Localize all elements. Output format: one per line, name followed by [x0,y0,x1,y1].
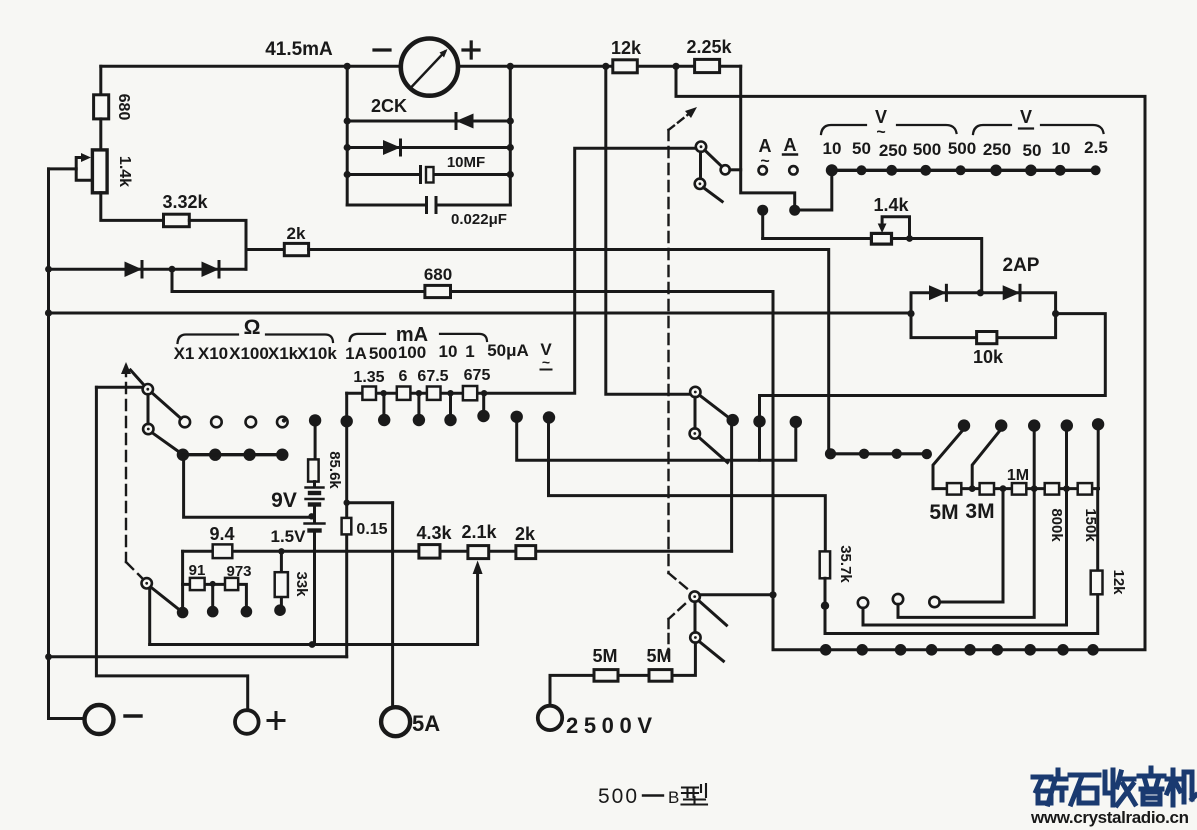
resistor 33k [275,572,288,597]
wire: wafer3 pivot link [694,602,697,633]
wire: 5M left lead diagonal [933,431,963,489]
svg-text:10MF: 10MF [447,154,485,171]
svg-text:5M: 5M [592,646,617,666]
wiper of 1.4k right pot [882,217,909,239]
junction: bridge left node [907,310,914,317]
rotary shaft dashed line (left) [126,366,143,579]
wire: omega contact bus [183,453,282,456]
svg-text:Ω: Ω [244,316,261,339]
wire: 2500V branch [550,643,695,706]
wire: HV divider chain [933,487,1099,490]
wiper arm b (free) [703,188,722,202]
svg-text:www.crystalradio.cn: www.crystalradio.cn [1030,808,1189,827]
svg-text:12k: 12k [611,38,642,58]
selector contact dots row2 [309,414,321,426]
resistor 0.15 [342,518,352,535]
svg-text:500: 500 [948,139,976,158]
svg-text:2.5: 2.5 [1084,138,1108,157]
svg-text:85.6k: 85.6k [326,451,343,489]
wafer2 wiper arm b (free) [699,437,728,462]
wire: wafer3 pivot a to right riser [700,593,773,596]
resistor 2.1k [468,546,489,559]
resistor 3M [980,483,994,495]
wire: 85.6k top lead [314,420,317,459]
svg-text:~: ~ [542,354,550,370]
svg-text:35.7k: 35.7k [837,545,854,583]
wire: diode row [49,268,247,271]
wire: 680 to 1.4k pot [99,119,102,150]
dashed top diagonal with arrow [669,113,691,130]
svg-text:X1k: X1k [268,344,299,363]
wire: bus y453 [831,452,927,455]
wire: contact to 2.25k drop [730,168,741,171]
resistor 5M b [649,670,672,682]
wire: battery resistor row y551 [183,550,732,553]
terminal plus [235,710,259,734]
svg-text:1.4k: 1.4k [116,156,133,187]
wire: 35.7k bottom to 12k bottom [825,578,1098,633]
wire: meter block left vertical [346,66,349,205]
wire: down to diode row [245,250,248,270]
wire: 0.15 column [345,421,348,657]
bracket omega group [178,335,334,344]
wire: wiper to left bus [49,167,77,170]
bottom bus dots [820,644,832,656]
resistor 3.32k [164,214,190,227]
junction: on right riser [769,591,776,598]
junction: 91-973 mid [210,581,216,587]
resistor 2.25k [695,59,720,72]
wire: line B [49,655,347,658]
node dot below A~ [757,205,768,216]
capacitor 10MF (electrolytic) [419,167,422,183]
svg-text:A: A [784,135,797,155]
resistor 35.7k [820,551,830,578]
junction: line B left [45,653,52,660]
omega wiper arm a [152,393,181,419]
svg-text:41.5mA: 41.5mA [265,39,333,60]
resistor 2k (top) [284,243,308,255]
node dot below A- [789,205,800,216]
battery selector dots [177,607,189,619]
junction: 2k line to bus453 [825,448,836,459]
svg-text:500: 500 [598,785,639,808]
dashed shaft (lower) [669,573,688,659]
resistor 33k leads [280,551,283,605]
svg-text:5M: 5M [646,646,671,666]
svg-text:10: 10 [823,139,842,158]
junction: left bus / long line [45,309,52,316]
svg-text:100: 100 [398,343,426,362]
potentiometer 1.4k (right) [871,233,891,244]
resistor 12k (right vertical) [1091,571,1103,595]
wafer2 pivot contact a [690,387,700,397]
bus453 dots [859,449,869,459]
wire: meter block right vertical [509,66,512,205]
junction: below 35.7k [821,602,829,610]
svg-text:2AP: 2AP [1003,255,1040,276]
wire: A~ node down to 1.4k pot line [761,210,764,238]
V bus contact dots [826,164,838,176]
svg-text:10k: 10k [973,347,1004,367]
adjust contact circle 2 [893,594,903,604]
rotary shaft dashed line (upper) [667,130,669,573]
svg-text:V: V [1020,107,1032,127]
diode D1 [125,262,143,278]
wire: 5A column [391,503,394,707]
wire: mA tap chain [347,392,484,395]
wire: pivot link [699,152,702,179]
wiper arm to arrow [131,370,144,385]
wiper arm a [705,150,722,166]
omega wafer pivot b [143,424,153,434]
omega open contacts row [180,417,191,428]
svg-text:680: 680 [424,265,452,284]
wiper arm to battery row [151,587,179,610]
wire: 3M-1M node down to contact circle [940,489,1003,602]
meter needle [411,52,445,88]
svg-text:1.5V: 1.5V [271,527,307,546]
lower-left pivot contact [142,578,152,588]
wire: wafer2 pivot link [694,397,697,428]
svg-text:675: 675 [464,367,491,384]
bridge diode D4 [1003,285,1020,300]
wire: row left end down [181,551,184,607]
junction: bridge right node [1052,310,1059,317]
wire: row right end up to contact [730,426,733,551]
wire: 680 line [172,290,773,293]
resistor 12k (top) [613,60,638,73]
resistor 85.6k [308,459,319,481]
capacitor 0.022uF [427,198,437,213]
wire: omega bus down to battery node [184,455,312,518]
svg-text:~: ~ [876,124,885,141]
omega contact dots row [177,449,189,461]
label plus at meter [463,42,479,58]
contact dot col 733 [727,414,739,426]
wire: 3.32k to 2k line [189,220,284,249]
bracket V~ group [821,125,957,134]
wire: chain left end down to contact [345,393,348,415]
svg-text:10: 10 [439,342,458,361]
svg-text:2500V: 2500V [566,713,652,738]
arrow to 2.1k [473,561,483,575]
svg-text:2.25k: 2.25k [686,37,732,57]
jack A~ circle [759,166,767,174]
svg-text:0.022μF: 0.022μF [451,211,507,228]
resistor 91 [190,578,205,590]
junction: 0.15 top tap [344,500,350,506]
wafer3 pivot contact b [690,632,700,642]
contact dot col 760 [753,415,765,427]
svg-text:0.15: 0.15 [356,521,387,538]
wire: V selector bus [832,169,1096,172]
resistor 10k on bridge [977,332,997,344]
adjust contact circle 3 [929,597,939,607]
junction: 2.25k left node [672,63,679,70]
rectifier bridge 2AP outline [911,293,1056,338]
caption glyph xing [682,784,708,805]
diode (pointing right) [383,140,401,155]
junction: pot wiper tie [906,235,913,242]
chain junction dots and stems [380,390,386,396]
resistor 973 [225,578,238,590]
svg-text:1A: 1A [345,344,367,363]
svg-text:~: ~ [760,153,769,170]
junction: 12k left node [602,63,609,70]
wire: long node line y313 [49,312,912,315]
junction: 33k top [278,548,284,554]
terminal 5A [381,707,410,736]
junction: diode row tap [169,266,176,273]
wire: outer loop (top edge, right edge, bottom bus, left riser) [676,66,1145,650]
wafer3 wiper arm a (free) [699,601,727,626]
wire: diode 2CK row [347,120,510,123]
resistor 1M [1012,483,1026,495]
resistor 1.35 [362,387,376,400]
svg-text:1M: 1M [1007,467,1029,484]
svg-text:X1: X1 [174,344,195,363]
wire: tap to 5A column [347,501,393,504]
resistor 4.3k [419,545,440,559]
resistor 5M a [594,670,618,682]
wire: line A with wiper riser to 2.1k [150,574,478,645]
resistor 67.5 [427,387,441,400]
wafer2 wiper arm a [700,395,728,417]
svg-text:2k: 2k [515,524,536,544]
svg-text:1.4k: 1.4k [873,195,909,215]
battery 1.5V [313,516,316,522]
svg-text:500: 500 [913,140,941,159]
wiper of 1.4k pot [76,158,92,181]
adjust contact circle 1 [858,598,868,608]
wire: 1M-800k node down to contact circle [898,489,1034,618]
dashed-line arrow (left shaft) [121,362,131,374]
svg-text:50: 50 [852,139,871,158]
resistor 6 [397,387,411,400]
wire: y497 line from contact 549 to 35.7k [549,423,826,551]
wire: 1M riser [1033,431,1036,489]
svg-text:3M: 3M [965,500,994,523]
svg-text:X10k: X10k [297,344,337,363]
wire: 2.25k right down, steps to V bus [741,66,832,210]
svg-text:X100: X100 [229,344,269,363]
wire: diode row tap down to 680 line [171,269,174,291]
wire: top rail riser from R 680 [99,66,102,95]
wire: 12k node down and to wafer2 pivot [606,66,690,394]
terminal minus [85,705,114,734]
resistor 675 [463,386,477,400]
svg-text:2k: 2k [287,224,306,243]
terminal 2500V [538,706,562,730]
meter M (moving coil) [401,39,458,96]
wire: y460 bus with end risers [517,423,796,461]
svg-text:2CK: 2CK [371,96,407,116]
svg-text:10: 10 [1052,139,1071,158]
resistor 150k [1078,483,1092,495]
resistor 2k (bottom) [516,546,536,559]
svg-text:3.32k: 3.32k [162,192,208,212]
junction: left bus / diode row [45,266,52,273]
svg-text:250: 250 [879,141,907,160]
wire: 2k line to right, down to contact bus [309,250,829,449]
resistor 680 (top left, vertical) [94,95,109,119]
omega wafer pivot a [143,384,153,394]
wire: diode row 2 [347,146,510,149]
wire: capacitor 0.022 row [347,204,510,207]
wafer1 selected contact circle [721,165,730,174]
svg-text:1: 1 [465,342,474,361]
junction: battery mid tap [308,513,314,519]
wire: col760 riser [758,427,761,460]
wire: pivot to left vertical [96,386,142,389]
svg-text:50: 50 [1023,141,1042,160]
wafer3 wiper arm b (free) [699,642,723,662]
resistor 680 (middle) [425,285,451,297]
contact dot col 796 [790,416,802,428]
svg-text:250: 250 [983,140,1011,159]
wire: 91-973 row [183,584,247,606]
wire: 800k-150k node down to contact circle [863,489,1067,625]
svg-text:91: 91 [189,562,206,579]
svg-text:9.4: 9.4 [209,524,234,544]
wire: 800k riser [1065,431,1068,489]
svg-text:67.5: 67.5 [417,368,448,385]
omega wiper arm b [152,433,178,452]
junction: battery minus on line A [309,641,316,648]
svg-text:4.3k: 4.3k [416,523,452,543]
wire: 1.4k to 3.32k [101,193,164,221]
wire: pivot down to line A [148,588,151,644]
bridge diode D3 [929,285,946,300]
wafer3 pivot contact a [690,591,700,601]
svg-text:800k: 800k [1048,508,1065,542]
svg-text:B: B [668,788,679,807]
svg-text:680: 680 [115,94,132,121]
wire: mid stem [211,584,214,606]
wire: 150k riser [1097,430,1100,489]
wire: mA chain end up and to wafer1 pivot [484,148,695,393]
wire: omega pivot link [147,394,150,423]
wafer2 pivot contact b [690,428,700,438]
jack A- circle [789,166,797,174]
wire: second left vertical down to plus terminal [96,387,247,710]
svg-text:500: 500 [369,344,397,363]
wire: 1.4k pot line [763,239,982,293]
svg-text:973: 973 [226,563,251,580]
resistor 5M [947,483,961,495]
wafer1 pivot contact b [695,179,705,189]
resistor 800k [1045,483,1059,495]
potentiometer 1.4k (vertical, left) [92,150,107,193]
svg-text:5M: 5M [929,501,958,524]
svg-text:12k: 12k [1110,569,1127,595]
label minus at meter [374,48,390,51]
svg-text:9V: 9V [271,489,297,512]
svg-text:6: 6 [399,368,408,385]
wire: capacitor 10MF row [347,173,510,176]
wire: 150k to 12k [1096,489,1099,571]
watermark CJK kuang shi shou yin ji [1033,768,1196,805]
wire: top rail [101,65,741,68]
junction dots meter block [344,63,351,70]
svg-text:2.1k: 2.1k [461,522,497,542]
svg-text:X10: X10 [198,344,228,363]
battery 9V [313,482,316,486]
chain junction dots [969,485,976,492]
svg-text:1.35: 1.35 [353,369,384,386]
diode 2CK (pointing left) [456,114,474,129]
diode D2 [202,262,220,278]
wire: bridge right node to y396 line, down-left to contact [760,314,1106,416]
wire: left vertical bus [49,169,85,719]
junction: bridge top mid [977,289,984,296]
bracket mA group [350,334,487,341]
svg-text:50μA: 50μA [487,341,529,360]
bracket V- group [973,125,1104,134]
wire: 3M diagonal [972,431,1000,489]
wafer1 pivot contact a [696,142,706,152]
svg-text:33k: 33k [293,571,310,597]
svg-text:5A: 5A [412,711,440,736]
resistor 9.4 [213,544,233,558]
contact dots row3 top [958,419,970,431]
